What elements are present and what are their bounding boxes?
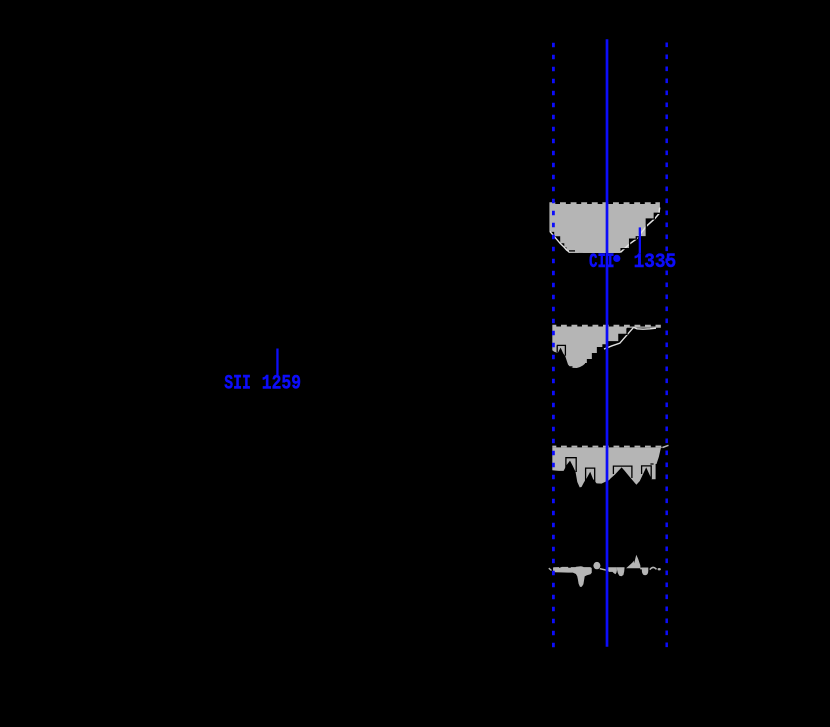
svg-text:SII: SII — [224, 373, 251, 396]
svg-text:1259: 1259 — [262, 373, 301, 396]
svg-text:CII: CII — [589, 251, 615, 274]
svg-text:1335: 1335 — [634, 251, 677, 274]
